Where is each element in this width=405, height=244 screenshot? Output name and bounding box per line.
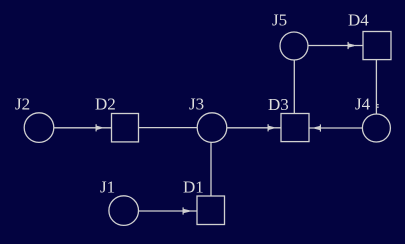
svg-text:J3: J3 — [189, 95, 204, 114]
node J5 — [280, 32, 308, 60]
svg-text:D1: D1 — [183, 177, 204, 196]
svg-text:J4: J4 — [355, 95, 371, 114]
arrowhead into D3 right — [315, 124, 322, 131]
wire J4 to D3 — [309, 127, 362, 129]
svg-text:D4: D4 — [348, 11, 369, 30]
node D4 — [363, 32, 391, 60]
wire D4 to J4 — [375, 60, 377, 114]
arrowhead into D1 — [183, 207, 190, 214]
svg-text:J1: J1 — [100, 177, 115, 196]
node J3 — [197, 113, 227, 143]
wire J3 to D1 — [210, 142, 212, 196]
svg-text:D2: D2 — [95, 95, 116, 114]
arrowhead into D4 — [348, 42, 355, 49]
svg-text:J2: J2 — [15, 95, 30, 114]
arrowhead into J4 (vertical) — [377, 104, 379, 108]
wire J5 to D3 — [293, 60, 295, 114]
wire J5 to D4 — [308, 45, 363, 47]
wire J1 to D1 — [139, 210, 198, 212]
wire J2 to D2 — [54, 127, 112, 129]
node J1 — [109, 196, 139, 226]
wire D2 to J3 — [139, 127, 198, 129]
node D1 — [197, 196, 225, 225]
svg-text:D3: D3 — [268, 95, 289, 114]
node J2 — [24, 113, 54, 143]
arrowhead into D2 — [96, 124, 103, 131]
node D3 — [281, 114, 309, 142]
node J4 — [362, 114, 390, 142]
wire J3 to D3 — [227, 127, 281, 129]
arrowhead into D3 left — [268, 124, 275, 131]
node D2 — [112, 114, 139, 142]
svg-text:J5: J5 — [272, 11, 287, 30]
